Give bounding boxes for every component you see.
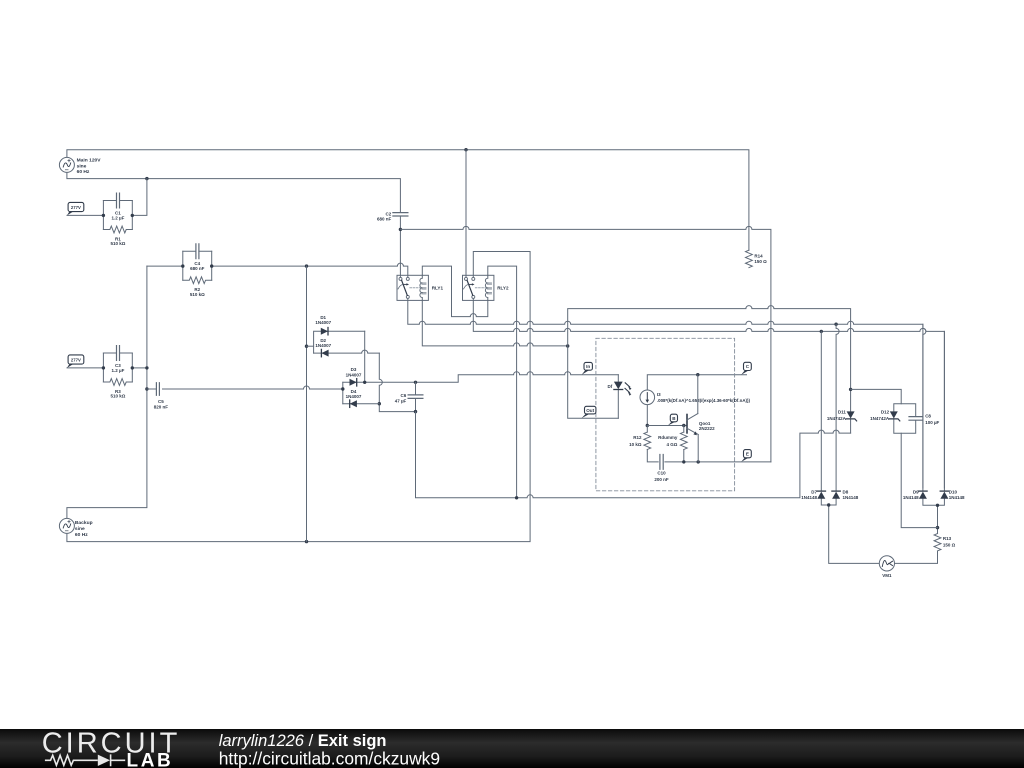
svg-text:C10: C10	[657, 470, 666, 475]
svg-text:1N4742A: 1N4742A	[870, 416, 890, 421]
wire I3 bottom to base node	[646, 405, 648, 426]
wire C6 down to bottom rail to D11 riser (dot 516.6, hop 530.1, hops 821/836)	[416, 412, 851, 498]
diode D9 1N4148	[919, 492, 927, 499]
svg-text:1N4007: 1N4007	[346, 394, 362, 399]
capacitor C6 plates	[408, 395, 423, 399]
rail B from RLY2 common (hops, dot at D7)	[473, 299, 944, 489]
wire D1 output down to D3 wire	[364, 331, 366, 382]
svg-text:R12: R12	[633, 435, 642, 440]
diode D4 1N4007	[350, 400, 357, 407]
relay RLY1	[397, 275, 428, 300]
node rail C end junction	[566, 344, 569, 347]
svg-text:510 kΩ: 510 kΩ	[190, 292, 205, 297]
svg-text:4 GΩ: 4 GΩ	[667, 442, 678, 447]
node rail B / D7 tap	[820, 330, 823, 333]
svg-text:D8: D8	[843, 490, 849, 495]
wire left bus lower segment from C4	[67, 266, 147, 519]
capacitor C2	[393, 213, 408, 216]
svg-text:47 µF: 47 µF	[395, 398, 407, 403]
wire D9 drop (hop over rail B)	[923, 324, 926, 491]
svg-text:277V: 277V	[71, 205, 81, 210]
node D1 to D3 junction	[363, 381, 366, 384]
subcircuit dashed box	[596, 338, 735, 491]
zener diode D11 1N4742A	[847, 411, 855, 418]
resistor R13	[934, 534, 941, 551]
zener diode D12 1N4742A	[890, 411, 898, 418]
svg-text:C8: C8	[925, 414, 931, 419]
node C6 bottom junction	[414, 410, 417, 413]
diode D7 1N4148	[817, 492, 825, 499]
wire D4 branch	[343, 403, 380, 405]
capacitor C5 plates	[156, 383, 159, 396]
capacitor C8 plates	[909, 417, 922, 421]
svg-text:Rdummy: Rdummy	[658, 435, 678, 440]
svg-text:1.2 µF: 1.2 µF	[111, 216, 124, 221]
svg-text:10 kΩ: 10 kΩ	[629, 442, 642, 447]
svg-text:1N4148: 1N4148	[843, 495, 859, 500]
svg-text:820 nF: 820 nF	[154, 404, 169, 409]
node collector junction	[696, 373, 699, 376]
current source I3	[640, 390, 655, 405]
wire R12 top stub	[646, 426, 648, 433]
svg-text:277V: 277V	[71, 357, 81, 362]
node emitter bottom junction	[697, 460, 700, 463]
svg-text:510 kΩ: 510 kΩ	[110, 241, 125, 246]
net flag B	[670, 414, 677, 422]
wire D7 drop	[820, 331, 822, 491]
svg-text:100 µF: 100 µF	[925, 420, 939, 425]
wire D12/C8 box	[894, 404, 916, 433]
wire 277V second to C3	[67, 367, 103, 369]
node Rdummy bottom junction	[682, 460, 685, 463]
svg-text:Out: Out	[586, 408, 594, 413]
wire D3 branch to step and In wire (hops at 516.6,530.1,567.7)	[343, 372, 619, 383]
svg-text:R13: R13	[943, 536, 952, 541]
node D1/D2 tap	[305, 345, 308, 348]
wire R12 bottom to E rail with C10 gap	[647, 450, 771, 462]
svg-text:Main 120V: Main 120V	[77, 157, 102, 163]
wire D2 branch (hop at 364.7)	[314, 350, 380, 353]
wire D8 drop (hop over rail B)	[836, 324, 839, 491]
wire C4 to RLY1 pin2 (hop over C2 drop)	[212, 263, 408, 277]
wire D3/D4 loop left	[342, 382, 344, 403]
svg-text:E: E	[746, 452, 749, 457]
voltmeter VM1	[879, 556, 894, 571]
svg-text:60 Hz: 60 Hz	[75, 532, 88, 538]
net flag E	[744, 450, 752, 458]
wire D9/D10 bottoms to R13	[923, 499, 945, 534]
node C2 junction	[399, 228, 402, 231]
resistor R14	[746, 250, 753, 267]
node D7/D8 bottom junction	[827, 503, 830, 506]
wire 277V to C1	[67, 214, 103, 216]
rail A from RLY1 common (hops, dot at D8)	[408, 299, 923, 489]
wire C2 horizontal to right drop (hops at 466, 748.9)	[400, 226, 771, 462]
wire RLY2 coil top to mid bus drop	[488, 266, 517, 498]
svg-text:1N4148: 1N4148	[949, 495, 965, 500]
wire D-bus vertical	[306, 266, 308, 541]
svg-text:larrylin1226 / Exit sign: larrylin1226 / Exit sign	[219, 732, 387, 750]
diode D1 1N4007	[321, 328, 328, 335]
svg-text:D11: D11	[838, 410, 847, 415]
wire Rdummy stubs	[683, 426, 685, 462]
wire top rail drop to RLY2 pin1	[465, 150, 467, 278]
node bottom rail mid-bus junction	[515, 496, 518, 499]
transistor Qoo1 2N2222	[686, 415, 688, 433]
wire Out return to rail1 over to D11 (hops at 748.9, 770.9)	[568, 306, 851, 419]
voltage source V1 Main 120V	[59, 157, 74, 172]
wire RLY2 pin2 up and over to right drop / backup rail	[67, 252, 530, 542]
svg-text:150 Ω: 150 Ω	[754, 259, 767, 264]
wire C2 drop to RLY1 pin1	[399, 216, 401, 277]
svg-text:RLY2: RLY2	[497, 286, 509, 291]
svg-text:C6: C6	[401, 393, 407, 398]
wire left bus upper segment to C1	[132, 179, 147, 216]
svg-text:RLY1: RLY1	[432, 286, 444, 291]
capacitor C4 / resistor R2 parallel	[183, 244, 212, 284]
node base node junction	[646, 424, 649, 427]
wire R13 bottom to VM1 right	[895, 551, 938, 563]
wire V1 bottom rail to C2	[67, 172, 401, 212]
svg-text:150 Ω: 150 Ω	[943, 542, 956, 547]
svg-text:VM1: VM1	[882, 573, 892, 578]
svg-text:LAB: LAB	[127, 750, 174, 768]
svg-text:1N4007: 1N4007	[346, 372, 362, 377]
node Rdummy top junction	[682, 424, 685, 427]
wire D1/D2 left stub	[307, 345, 314, 347]
svg-text:http://circuitlab.com/ckzuwk9: http://circuitlab.com/ckzuwk9	[219, 749, 440, 768]
wire bus to C4	[147, 265, 183, 267]
LED Df	[614, 382, 623, 390]
wire LED drop	[617, 375, 619, 419]
svg-text:D7: D7	[811, 490, 817, 495]
wire D10 drop	[943, 331, 945, 491]
node C3 bus junction	[145, 366, 148, 369]
wire D2 output down (hop over D3 wire) to D4	[379, 353, 415, 412]
svg-text:1.2 µF: 1.2 µF	[111, 368, 124, 373]
wire D11 to D12 box	[851, 389, 902, 403]
diode D3 1N4007	[350, 379, 357, 386]
svg-text:In: In	[586, 364, 590, 369]
svg-text:.008*(k(Df.nA)^1.653)/(exp(4.3: .008*(k(Df.nA)^1.653)/(exp(4.36-60*k(Df.…	[657, 398, 751, 403]
svg-text:1N4007: 1N4007	[315, 320, 331, 325]
diode D8 1N4148	[832, 492, 840, 499]
node junction top rail to RLY2	[464, 148, 467, 151]
diode D10 1N4148	[940, 492, 948, 499]
wire D1 branch	[314, 331, 365, 353]
net flag C	[744, 362, 752, 370]
net flag 277V (top)	[68, 202, 84, 211]
svg-text:I3: I3	[657, 392, 661, 397]
svg-text:680 nF: 680 nF	[377, 217, 392, 222]
capacitor C3 / resistor R3 parallel	[103, 346, 132, 386]
rail C from RLY1 coil bottom	[422, 300, 567, 346]
wire C6 vertical	[415, 382, 417, 411]
svg-text:sine: sine	[77, 163, 87, 169]
node rail A / D8 tap	[834, 323, 837, 326]
node C5 into D3/D4	[341, 387, 344, 390]
svg-text:R14: R14	[754, 254, 763, 259]
svg-text:C2: C2	[386, 211, 392, 216]
svg-text:sine: sine	[75, 526, 85, 532]
svg-text:510 kΩ: 510 kΩ	[110, 394, 125, 399]
node junction bottom rail / left bus	[145, 177, 148, 180]
net flag In	[584, 362, 592, 370]
svg-text:2N2222: 2N2222	[699, 426, 715, 431]
node C6 top junction	[414, 381, 417, 384]
node D1 bus tap on C4 wire	[305, 264, 308, 267]
svg-text:Backup: Backup	[75, 520, 93, 526]
relay RLY2	[463, 275, 494, 300]
resistor R12	[644, 432, 651, 449]
svg-text:60 Hz: 60 Hz	[77, 169, 90, 175]
svg-text:680 nF: 680 nF	[190, 266, 205, 271]
capacitor C10 plates	[660, 455, 663, 470]
svg-text:D10: D10	[949, 490, 958, 495]
wire top rail from V1 to R14	[67, 150, 749, 251]
wire D12 box bottom to R13 node	[901, 433, 937, 527]
diode D2 1N4007	[321, 350, 328, 357]
net flag Out	[585, 406, 596, 414]
node C5 bus junction	[145, 387, 148, 390]
node D9/D10 junction	[936, 504, 939, 507]
svg-text:1N4742A: 1N4742A	[827, 416, 847, 421]
node D4 output junction	[378, 402, 381, 405]
wire I3 top to rail / collector (dot) to C flag	[647, 375, 746, 390]
wire RLY1 coil link to RLY2 coil (hop at 473.3)	[422, 266, 488, 317]
wire base rail	[647, 425, 686, 427]
net flag 277V (middle)	[68, 355, 84, 364]
wire C3 to bus	[132, 367, 147, 369]
node backup rail / D-bus junction	[305, 540, 308, 543]
wire D7/D8 bottoms to VM1 left	[821, 499, 879, 564]
svg-text:D9: D9	[913, 490, 919, 495]
svg-text:1N4007: 1N4007	[315, 343, 331, 348]
svg-text:1N4148: 1N4148	[903, 495, 919, 500]
capacitor C1 / resistor R1 parallel	[103, 193, 132, 233]
voltage source V2 Backup	[59, 518, 74, 533]
svg-text:C5: C5	[158, 399, 164, 404]
svg-text:D12: D12	[881, 410, 890, 415]
node R13 top / D12 return junction	[936, 526, 939, 529]
svg-text:Df: Df	[608, 384, 613, 389]
resistor Rdummy	[680, 432, 687, 449]
svg-text:1N4148: 1N4148	[801, 495, 817, 500]
svg-text:200 nF: 200 nF	[654, 477, 669, 482]
wire bus through C5 to D3/D4 (hop at 306.5)	[147, 386, 343, 389]
node D11 branch junction	[849, 388, 852, 391]
wire D11 lower to y433 corner	[850, 419, 852, 433]
